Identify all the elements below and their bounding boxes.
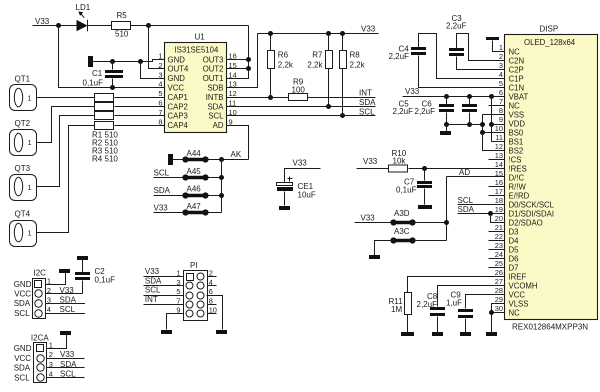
svg-text:3: 3 — [158, 70, 162, 79]
svg-text:SDA: SDA — [154, 186, 171, 195]
svg-text:29: 29 — [495, 295, 503, 304]
svg-text:SCL: SCL — [14, 309, 30, 318]
svg-text:2,2k: 2,2k — [307, 60, 323, 69]
wire VSS/BS0/BS2 bus — [483, 115, 505, 151]
svg-text:15: 15 — [229, 61, 237, 70]
svg-text:4: 4 — [158, 80, 162, 89]
svg-text:D0/SCK/SCL: D0/SCK/SCL — [509, 200, 555, 209]
svg-text:16: 16 — [229, 52, 237, 61]
svg-text:OUT1: OUT1 — [203, 74, 224, 83]
wire R8 bottom to SCL line — [342, 69, 344, 116]
wire A46 to bus — [206, 195, 222, 197]
svg-text:4: 4 — [499, 70, 503, 79]
junction A46 bus — [219, 193, 224, 198]
svg-text:2,2k: 2,2k — [350, 60, 366, 69]
wire DISP pin 16 stub — [489, 186, 505, 188]
wire V33 to R10 — [357, 168, 389, 170]
wire PI pin9 to ground — [167, 314, 184, 330]
ground VLSS — [486, 332, 497, 336]
svg-text:V33: V33 — [293, 159, 308, 168]
svg-text:VBAT: VBAT — [509, 92, 529, 101]
svg-text:CAP2: CAP2 — [168, 102, 188, 111]
resistor R2 — [95, 103, 114, 111]
svg-text:R6: R6 — [278, 51, 289, 60]
PI pin 1 square — [187, 274, 194, 281]
svg-text:I2CA: I2CA — [31, 333, 49, 342]
svg-text:A44: A44 — [187, 149, 202, 158]
svg-text:5: 5 — [499, 79, 503, 88]
wire GND rail to pin1 — [92, 60, 165, 62]
wire SCL to A45 — [154, 177, 186, 179]
svg-text:2: 2 — [49, 350, 53, 359]
svg-text:13: 13 — [495, 151, 503, 160]
svg-text:AD: AD — [459, 168, 470, 177]
wire VDD branch — [492, 124, 505, 126]
junction C1 bottom — [110, 85, 115, 90]
svg-text:QT3: QT3 — [15, 164, 31, 173]
ground PI pin6 — [216, 330, 227, 334]
wire SDA pin11 — [227, 106, 376, 108]
svg-text:SDA: SDA — [14, 364, 31, 373]
svg-text:VCC: VCC — [509, 290, 526, 299]
resistor R1 — [95, 94, 114, 102]
svg-text:1: 1 — [499, 43, 503, 52]
junction A45 bus — [219, 175, 224, 180]
svg-text:2,2uF: 2,2uF — [446, 22, 467, 31]
wire VSS ground rail — [447, 124, 483, 126]
wire NC pin30 to ground — [492, 312, 505, 314]
svg-text:D6: D6 — [509, 254, 519, 263]
svg-text:8: 8 — [158, 117, 162, 126]
svg-text:R/!W: R/!W — [509, 182, 527, 191]
wire DISP pin 24 stub — [489, 258, 505, 260]
svg-text:14: 14 — [495, 160, 503, 169]
svg-text:C1P: C1P — [509, 74, 524, 83]
svg-text:IS31SE5104: IS31SE5104 — [175, 46, 219, 55]
ground R11 — [401, 332, 414, 336]
svg-text:SCL: SCL — [60, 305, 76, 314]
NC terminal pin1 — [486, 37, 499, 40]
wire PI pin8 stub — [207, 304, 217, 306]
junction pin15 — [246, 66, 251, 71]
wire DISP pin 17 stub — [489, 195, 505, 197]
wire DISP pin 13 stub — [489, 159, 505, 161]
svg-text:20: 20 — [495, 214, 503, 223]
svg-text:23: 23 — [495, 241, 503, 250]
svg-text:OUT4: OUT4 — [168, 65, 189, 74]
svg-text:28: 28 — [495, 286, 503, 295]
wire R3 to CAP3 — [115, 115, 165, 117]
wire DISP pin 7 stub — [489, 105, 505, 107]
svg-text:C1: C1 — [92, 69, 103, 78]
svg-text:SCL: SCL — [359, 107, 375, 116]
wire A47 to bus — [206, 212, 222, 214]
svg-text:8: 8 — [499, 106, 503, 115]
wire V33 to PI pin1 — [144, 276, 184, 278]
wire SDA to D2 pin20 — [491, 214, 505, 223]
svg-text:GND: GND — [14, 344, 32, 353]
wire INTB pin12 to R9 — [227, 97, 289, 99]
svg-text:VLSS: VLSS — [509, 299, 529, 308]
svg-text:SCL: SCL — [145, 286, 161, 295]
svg-text:5: 5 — [176, 287, 180, 296]
wire VDD/BS1 bus — [492, 97, 505, 142]
svg-text:1,uF: 1,uF — [446, 299, 462, 308]
junction C1 top — [110, 59, 115, 64]
wire DISP pin 21 stub — [489, 231, 505, 233]
wire R9 to INT label — [308, 97, 376, 99]
svg-text:SCL: SCL — [458, 196, 474, 205]
svg-text:C2P: C2P — [509, 65, 524, 74]
wire R7 bottom to SDA line — [328, 69, 330, 107]
svg-text:A3D: A3D — [394, 209, 410, 218]
svg-text:6: 6 — [499, 88, 503, 97]
PI pins 3-10 circles — [186, 282, 193, 289]
junction R6/INT — [268, 95, 273, 100]
wire V33 to A47 — [154, 212, 186, 214]
junction jumper bus top — [219, 157, 224, 162]
wire OUT1-OUT3 bus vertical — [227, 26, 249, 79]
svg-text:12: 12 — [495, 142, 503, 151]
ground C9 — [460, 332, 471, 336]
wire C4 bottom to C1N pin5 — [419, 56, 505, 88]
junction R7/SDA — [326, 104, 331, 109]
junction pins 29/30 — [489, 310, 494, 315]
svg-text:1: 1 — [47, 276, 51, 285]
svg-text:0,1uF: 0,1uF — [95, 275, 116, 284]
svg-text:26: 26 — [495, 268, 503, 277]
svg-text:BS0: BS0 — [509, 128, 524, 137]
wire DISP pin 23 stub — [489, 249, 505, 251]
PI pin 2 — [197, 273, 204, 280]
svg-text:30: 30 — [495, 304, 503, 313]
wire OUT4 vertical to U1 pin 2 — [149, 26, 165, 69]
wire GND to U1 pin 3 — [141, 62, 165, 79]
svg-text:SCL: SCL — [14, 373, 30, 382]
wire V33 left vertical to VCC — [59, 26, 165, 88]
svg-text:2: 2 — [158, 61, 162, 70]
wire IREF pin26 to R11 — [408, 277, 505, 293]
svg-text:SDA: SDA — [359, 98, 376, 107]
svg-text:2,2uF: 2,2uF — [415, 107, 436, 116]
junction pin16 — [246, 57, 251, 62]
svg-text:SCL: SCL — [154, 168, 170, 177]
svg-text:10uF: 10uF — [298, 191, 316, 200]
svg-text:VCC: VCC — [14, 290, 31, 299]
svg-text:INTB: INTB — [206, 93, 224, 102]
wire AD pin9 to AK — [227, 126, 249, 160]
wire AD to D/!C pin15 — [447, 176, 505, 178]
resistor R4 — [95, 122, 114, 130]
ground C8 — [432, 332, 443, 336]
svg-text:INT: INT — [145, 295, 158, 304]
wire SCL to D0 pin18 — [458, 204, 505, 206]
svg-text:7: 7 — [176, 296, 180, 305]
svg-text:OLED_128x64: OLED_128x64 — [524, 38, 576, 47]
svg-text:SDA: SDA — [458, 205, 475, 214]
junction A3D / AD bus — [444, 220, 449, 225]
svg-text:VCC: VCC — [168, 84, 185, 93]
svg-text:D2/SDAO: D2/SDAO — [509, 218, 543, 227]
wire R10 to !RES pin14 — [409, 168, 505, 170]
svg-text:SDA: SDA — [14, 299, 31, 308]
wire QT2 to R2 — [37, 107, 95, 143]
terminal bar A44 left — [168, 154, 173, 165]
wire SDA to D1 pin19 — [458, 213, 505, 215]
svg-text:510: 510 — [105, 155, 119, 164]
wire U1 pin 16 — [227, 59, 249, 61]
ground A3C — [369, 255, 380, 259]
wire V33 to A3D — [355, 222, 394, 224]
junction OUT4 branch — [146, 23, 151, 28]
svg-text:V33: V33 — [405, 87, 420, 96]
svg-text:D7: D7 — [509, 263, 519, 272]
junction R8 top — [340, 31, 345, 36]
svg-text:1: 1 — [28, 138, 32, 147]
wire V33 pullup rail — [258, 33, 379, 35]
svg-text:QT4: QT4 — [15, 210, 31, 219]
svg-text:E/!RD: E/!RD — [509, 191, 530, 200]
wire DISP pin 25 stub — [489, 267, 505, 269]
svg-text:1: 1 — [28, 94, 32, 103]
svg-text:21: 21 — [495, 223, 503, 232]
svg-text:D4: D4 — [509, 236, 520, 245]
svg-text:CAP3: CAP3 — [168, 112, 188, 121]
junction VSS bus / ground rail — [480, 122, 485, 127]
svg-text:GND: GND — [168, 74, 186, 83]
junction R6 top — [268, 31, 273, 36]
wire A44 to AK — [206, 159, 249, 161]
wire V33 to LED — [33, 25, 77, 27]
svg-text:D5: D5 — [509, 245, 520, 254]
svg-text:INT: INT — [359, 89, 372, 98]
wire PI pin6 to ground — [207, 296, 223, 330]
svg-text:GND: GND — [14, 280, 32, 289]
wire DISP pin 22 stub — [489, 240, 505, 242]
svg-text:24: 24 — [495, 250, 503, 259]
svg-text:IREF: IREF — [509, 272, 527, 281]
svg-text:18: 18 — [495, 196, 503, 205]
wire R2 to CAP2 — [115, 106, 165, 108]
wire A3C to AD bus — [413, 240, 447, 242]
wire A45 to bus — [206, 177, 222, 179]
wire A3D to AD bus — [413, 222, 447, 224]
svg-text:V33: V33 — [361, 25, 376, 34]
svg-text:!RES: !RES — [509, 164, 527, 173]
svg-text:CAP1: CAP1 — [168, 93, 188, 102]
junction VDD branch — [489, 122, 494, 127]
wire BS0 branch — [483, 132, 505, 134]
junction SDA pins19/20 — [488, 211, 493, 216]
svg-text:R8: R8 — [350, 51, 361, 60]
wire SDB pin13 to V33 rail — [227, 34, 258, 88]
svg-text:DISP: DISP — [540, 25, 559, 34]
svg-text:2,2uF: 2,2uF — [389, 52, 410, 61]
svg-text:OUT2: OUT2 — [203, 65, 224, 74]
svg-text:V33: V33 — [60, 350, 75, 359]
svg-text:3: 3 — [499, 61, 503, 70]
ground I2CA pin1 — [60, 331, 71, 335]
svg-text:BS2: BS2 — [509, 146, 524, 155]
svg-text:6: 6 — [209, 287, 213, 296]
resistor R7 2,2k — [328, 34, 330, 51]
svg-text:10: 10 — [495, 124, 503, 133]
svg-text:1: 1 — [158, 52, 162, 61]
svg-text:VSS: VSS — [509, 110, 525, 119]
junction R8/SCL — [340, 113, 345, 118]
svg-text:2,2k: 2,2k — [278, 60, 294, 69]
svg-text:10k: 10k — [393, 156, 407, 165]
svg-text:R5: R5 — [117, 11, 128, 20]
svg-text:17: 17 — [495, 187, 503, 196]
svg-text:8: 8 — [209, 296, 213, 305]
junction C6 leg / VSS rail — [467, 122, 472, 127]
wire VCC pin28 to C9 — [466, 295, 505, 309]
wire QT1 to R1 — [37, 97, 95, 99]
svg-text:REX012864MXPP3N: REX012864MXPP3N — [512, 323, 588, 332]
svg-text:0,1uF: 0,1uF — [83, 79, 104, 88]
wire PI pin10 stub — [207, 313, 217, 315]
junction C7 top — [422, 166, 427, 171]
wire C3 bottom to C2P pin3 — [457, 57, 505, 70]
svg-text:U1: U1 — [195, 33, 206, 42]
ground C5 — [440, 131, 451, 135]
ground terminal C1 rail — [88, 56, 93, 67]
svg-text:R4: R4 — [92, 155, 103, 164]
svg-text:NC: NC — [509, 308, 521, 317]
wire R1 to CAP1 — [115, 97, 165, 99]
svg-text:SDB: SDB — [207, 84, 223, 93]
svg-text:AD: AD — [213, 121, 224, 130]
ground CE1 — [279, 206, 290, 210]
svg-text:PI: PI — [190, 261, 198, 270]
wire U1 pin 15 — [227, 68, 249, 70]
svg-text:R7: R7 — [312, 51, 323, 60]
resistor R8 2,2k — [342, 34, 344, 51]
wire SCL pin10 — [227, 115, 376, 117]
wire V33 rail to VBAT — [403, 96, 505, 98]
svg-text:1M: 1M — [391, 305, 402, 314]
svg-text:CAP4: CAP4 — [168, 121, 189, 130]
wire R4 to CAP4 — [115, 125, 165, 127]
svg-text:VCOMH: VCOMH — [509, 281, 538, 290]
junction V33/LED — [56, 23, 61, 28]
svg-text:100: 100 — [292, 85, 306, 94]
wire VCOMH pin27 to C8 — [438, 286, 505, 307]
junction VBAT corner — [489, 94, 494, 99]
svg-text:SDA: SDA — [207, 102, 224, 111]
wire LED to R5 — [88, 25, 112, 27]
resistor R3 — [95, 112, 114, 120]
svg-text:4: 4 — [47, 305, 51, 314]
wire AD bus vertical — [446, 177, 448, 241]
junction C6 top — [467, 94, 472, 99]
svg-text:NC: NC — [509, 101, 521, 110]
svg-text:14: 14 — [229, 70, 237, 79]
svg-text:1: 1 — [28, 183, 32, 192]
svg-text:7: 7 — [499, 97, 503, 106]
junction pin3 branch — [138, 59, 143, 64]
svg-text:V33: V33 — [35, 17, 50, 26]
junction BS0 branch — [480, 130, 485, 135]
svg-text:V33: V33 — [145, 267, 160, 276]
wire A3C to ground — [375, 241, 394, 256]
svg-text:V33: V33 — [154, 204, 169, 213]
svg-text:AK: AK — [231, 150, 242, 159]
junction R7 top — [326, 31, 331, 36]
svg-text:LD1: LD1 — [76, 3, 91, 12]
wire SDA to PI pin3 — [144, 285, 184, 287]
svg-text:A46: A46 — [187, 184, 202, 193]
svg-text:V33: V33 — [363, 157, 378, 166]
wire PI pin4 stub — [207, 285, 217, 287]
wire SDA to A46 — [154, 195, 186, 197]
svg-text:12: 12 — [229, 89, 237, 98]
ground terminal C2 — [77, 256, 88, 260]
svg-text:2: 2 — [499, 52, 503, 61]
wire V33 stub CE1 — [285, 169, 321, 183]
wire R6 bottom to INT line — [270, 69, 272, 98]
svg-text:0,1uF: 0,1uF — [396, 185, 417, 194]
wire C3 top to C2N pin2 — [457, 34, 505, 61]
svg-text:2,2uF: 2,2uF — [393, 107, 414, 116]
svg-text:A3C: A3C — [394, 227, 410, 236]
svg-text:QT2: QT2 — [15, 119, 31, 128]
wire C4 top to C1P pin4 — [419, 34, 505, 79]
wire VLSS pin29 to ground — [492, 304, 505, 333]
svg-text:VDD: VDD — [509, 119, 526, 128]
wire QT3 to R3 — [37, 116, 95, 187]
svg-text:!CS: !CS — [509, 155, 522, 164]
svg-text:9: 9 — [499, 115, 503, 124]
junction C5 top — [444, 94, 449, 99]
svg-text:25: 25 — [495, 259, 503, 268]
svg-text:D/!C: D/!C — [509, 173, 525, 182]
svg-text:V33: V33 — [361, 213, 376, 222]
svg-text:A47: A47 — [187, 202, 202, 211]
svg-text:5: 5 — [158, 89, 162, 98]
wire INT to PI pin7 — [144, 304, 184, 306]
wire QT4 to R4 — [37, 126, 95, 233]
svg-text:C1N: C1N — [509, 83, 525, 92]
svg-text:VCC: VCC — [14, 354, 31, 363]
svg-text:9: 9 — [229, 117, 233, 126]
svg-text:QT1: QT1 — [15, 75, 31, 84]
svg-text:SCL: SCL — [208, 112, 224, 121]
svg-text:1: 1 — [28, 229, 32, 238]
wire jumper bus vertical — [221, 160, 223, 213]
resistor R6 2,2k — [270, 34, 272, 51]
svg-text:C2N: C2N — [509, 56, 525, 65]
svg-text:BS1: BS1 — [509, 137, 524, 146]
svg-text:11: 11 — [495, 133, 503, 142]
svg-text:D1/SDI/SDAI: D1/SDI/SDAI — [509, 209, 555, 218]
wire SCL to PI pin5 — [144, 295, 184, 297]
svg-text:510: 510 — [115, 30, 129, 39]
svg-text:NC: NC — [509, 47, 521, 56]
svg-text:19: 19 — [495, 205, 503, 214]
svg-text:22: 22 — [495, 232, 503, 241]
wire R5 to OUT bus — [131, 25, 249, 27]
svg-text:16: 16 — [495, 178, 503, 187]
wire to A44 — [173, 159, 186, 161]
ground PI pin9 — [161, 330, 172, 334]
ground C7 — [418, 205, 432, 209]
wire PI pin2 stub — [207, 276, 217, 278]
svg-text:OUT3: OUT3 — [203, 55, 224, 64]
svg-text:GND: GND — [168, 55, 186, 64]
ground I2C pin1 — [59, 269, 70, 273]
